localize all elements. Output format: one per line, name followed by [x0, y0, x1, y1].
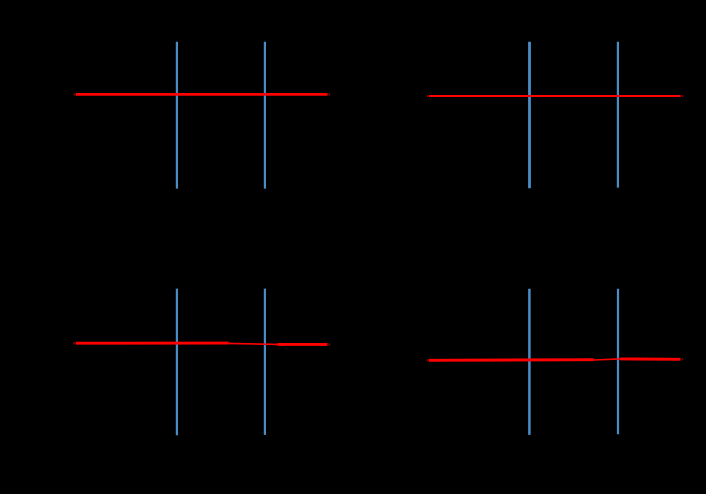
- blue vertical line TL-1: [176, 42, 178, 189]
- blue vertical line TR-1: [528, 42, 531, 189]
- blue vertical line BR-1: [528, 289, 531, 435]
- red line BL right tip dot: [329, 344, 331, 346]
- red line BR thick segment A: [429, 358, 594, 361]
- red line BL thin middle segment: [229, 343, 278, 344]
- blue vertical line BR-2: [617, 289, 619, 434]
- blue vertical line BL-1: [176, 289, 178, 436]
- red line BL left tip dot: [73, 342, 75, 344]
- blue vertical line TR-2: [617, 42, 619, 188]
- red line TR left tip dot: [427, 95, 428, 97]
- red horizontal line TL: [76, 93, 328, 96]
- red line TL left tip dot: [74, 94, 75, 96]
- red horizontal line TR: [429, 95, 681, 97]
- red line BR right tip dot: [682, 359, 684, 361]
- red line BR left tip dot: [427, 360, 429, 362]
- red line TL right tip dot: [329, 94, 330, 96]
- red line BR thin middle segment: [594, 359, 621, 360]
- red line TR right tip dot: [682, 95, 683, 97]
- blue vertical line TL-2: [264, 42, 266, 189]
- red line BL thick segment A: [76, 342, 229, 345]
- blue vertical line BL-2: [264, 289, 266, 435]
- red line BR thick segment B: [620, 357, 680, 360]
- red line BL thick segment B: [277, 343, 327, 346]
